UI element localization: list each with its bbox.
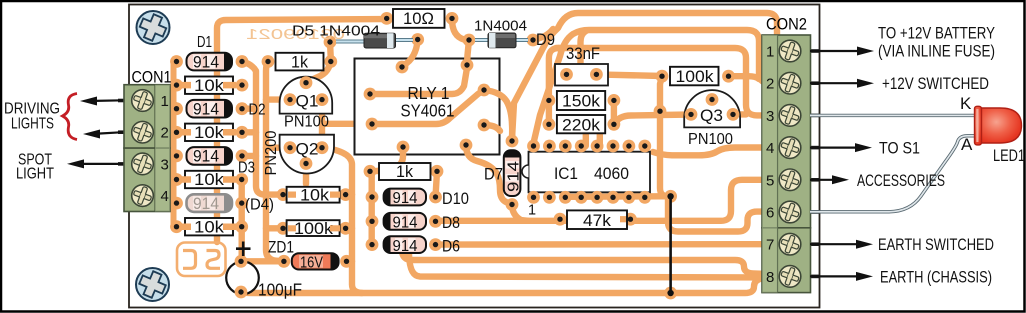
wire: relay internal horizontal to top right pad <box>370 68 467 94</box>
diode D4 optional <box>187 194 275 214</box>
svg-text:ACCESSORIES: ACCESSORIES <box>857 171 945 190</box>
node: 100k R1 pads <box>656 70 669 83</box>
brace <box>63 94 78 140</box>
arrow to CON1 terminal 2 <box>98 132 123 133</box>
mounting screw top left <box>137 11 170 44</box>
node: 220k pads <box>543 118 556 131</box>
node: 150k pads <box>543 94 556 107</box>
node: D10 pads <box>366 191 379 204</box>
transistor Q2 body <box>280 135 334 174</box>
wire: trace to CON2 terminal 3 <box>556 48 769 115</box>
svg-text:PN100: PN100 <box>284 114 329 131</box>
CON2 terminal numbers <box>766 44 774 286</box>
svg-text:8: 8 <box>766 269 774 286</box>
resistor 100k 1 <box>670 67 719 86</box>
arrow from CON2 terminal 1 <box>810 50 862 52</box>
CON2 screw 4 <box>779 136 802 159</box>
svg-text:7: 7 <box>766 237 774 254</box>
CON1 screw 2 <box>131 121 154 144</box>
resistor 1k top <box>276 52 324 71</box>
svg-text:D8: D8 <box>442 214 460 232</box>
wire: Q1 right pad down to Q2 right pad <box>319 100 325 148</box>
svg-text:D5 1N4004: D5 1N4004 <box>292 23 380 40</box>
node: D9 pads <box>463 34 476 47</box>
wire: relay internal lower horizontal diagonal <box>372 90 484 124</box>
CON2 screw 6 <box>779 201 802 224</box>
node: D7 pads <box>506 135 519 148</box>
wire: IC bottom rail to jumper top and S-curve into CON2 terminal 6 <box>566 196 769 231</box>
wire: Q2 left pad stub <box>266 144 290 150</box>
wire: 10-ohm right pad down to D9 left pad <box>452 19 469 40</box>
svg-text:914: 914 <box>193 147 219 166</box>
wire: trace to CON2 terminal 1 <box>512 13 777 139</box>
diode D2 <box>187 100 266 119</box>
wire: capacitor minus pad into bottom rail <box>241 279 762 294</box>
wire: Q3 right pad stub <box>733 111 746 117</box>
node: Q3 pads <box>685 108 698 121</box>
node: left pad column (CON1 rail pads) <box>170 55 183 233</box>
resistor 10k 1 <box>185 76 233 95</box>
svg-text:1: 1 <box>161 93 169 110</box>
LED A lead wire <box>810 136 976 212</box>
wire: CON1 terminal 2 stub <box>166 129 177 136</box>
svg-text:D1: D1 <box>197 34 212 51</box>
svg-text:150k: 150k <box>562 93 601 111</box>
wire: stubs into other resistor boxes <box>288 195 626 229</box>
svg-text:100k: 100k <box>294 220 334 238</box>
diode D5 1N4004 <box>292 23 413 49</box>
diode D7 vertical <box>484 150 522 196</box>
node: 1k R2 pads <box>364 165 377 178</box>
wire: right pad column vertical down to capacitor plus pad <box>238 180 244 262</box>
wire: D3 right pad stub <box>242 153 256 159</box>
svg-text:914: 914 <box>393 238 418 255</box>
svg-text:3: 3 <box>766 108 774 125</box>
zener ZD1 16V <box>268 239 339 272</box>
wire: 100k2 right pad stub <box>346 225 352 231</box>
node: Q2 pads <box>284 141 297 154</box>
diode D9 1N4004 <box>474 18 555 50</box>
svg-text:PN200: PN200 <box>263 130 280 175</box>
svg-text:33nF: 33nF <box>566 45 600 63</box>
wire: D9 right pad link to top bundle <box>533 29 553 40</box>
CON2 screw 2 <box>779 72 802 95</box>
CON2 screw 3 <box>779 104 802 127</box>
CON2 screw 7 <box>779 233 802 256</box>
wire: 33nF right pad to 100k left pad <box>596 74 662 76</box>
resistor ladder stubs over boxes <box>181 85 236 227</box>
svg-text:2: 2 <box>766 76 774 93</box>
relay RLY1 body <box>355 59 500 155</box>
wire: 10k2 right pad stub <box>242 129 256 135</box>
svg-text:A: A <box>961 135 973 154</box>
svg-text:Q3: Q3 <box>700 107 723 125</box>
board outline <box>129 5 820 308</box>
wire: D7 bottom pad drop to ground line <box>512 205 528 221</box>
node: D8 pads <box>366 215 379 228</box>
svg-text:914: 914 <box>193 100 219 119</box>
CON2 screw 8 <box>779 265 802 288</box>
CON1 wire stub 2 <box>118 130 127 134</box>
node: D6 pads <box>366 238 379 251</box>
wire: trace to CON2 terminal 4 <box>653 148 769 156</box>
svg-text:4060: 4060 <box>594 164 629 183</box>
wire: 47k D8 line rising to CON2 terminal 5 <box>436 180 770 221</box>
CON1 wire stub 1 <box>118 99 127 103</box>
resistor 100k 2 <box>287 220 340 238</box>
wire: 1k left pad down vertical x266 to ZD1 left pad <box>266 62 284 262</box>
CON1 terminal numbers <box>161 93 169 205</box>
wire: 1k2 right pad down to D10 right pad <box>436 171 438 197</box>
wire: relay bottom left pad down to 1k2 left pad <box>372 147 403 171</box>
resistor 10k 2 <box>185 123 233 142</box>
wire: IC pin stub up left <box>583 135 589 146</box>
wire: right vertical rail x352 down into bottom rail <box>322 148 362 293</box>
wire: relay right pad to D7 top pad <box>484 90 512 137</box>
LED LED1 <box>975 106 1022 145</box>
LED K lead wire <box>810 114 975 117</box>
svg-text:4: 4 <box>766 140 774 157</box>
arrow from CON2 terminal 7 <box>810 243 861 245</box>
svg-text:CON2: CON2 <box>766 15 807 34</box>
svg-text:EARTH SWITCHED: EARTH SWITCHED <box>878 235 994 254</box>
svg-text:(D4): (D4) <box>245 197 274 214</box>
arrow from CON2 terminal 5 <box>810 179 837 181</box>
node: capacitor pads <box>235 255 248 268</box>
node: jumper link pads <box>664 190 677 203</box>
svg-text:10k: 10k <box>194 123 225 142</box>
node: 1k R1 pads <box>262 55 275 68</box>
CON2 screw 1 <box>779 40 802 63</box>
svg-text:D6: D6 <box>442 237 460 255</box>
wire: D6 line to CON2 terminal 7 <box>436 241 770 248</box>
wire: IC pin stub up right <box>597 135 603 146</box>
svg-text:Q2: Q2 <box>296 140 319 158</box>
jumper wire link <box>669 196 672 293</box>
svg-text:1k: 1k <box>291 52 308 71</box>
wire: 100k left pad drop to IC ground line <box>660 76 668 196</box>
wire: ZD1 right pad stub <box>347 258 353 264</box>
svg-text:10Ω: 10Ω <box>403 9 434 28</box>
svg-text:CON1: CON1 <box>132 68 172 87</box>
resistor 10k 4 <box>185 217 233 236</box>
wire: left diode column vertical <box>369 171 375 244</box>
CON1 screw 1 <box>131 89 154 112</box>
svg-text:16V: 16V <box>300 255 324 272</box>
svg-text:LED1: LED1 <box>993 146 1025 165</box>
svg-text:100μF: 100μF <box>258 280 302 300</box>
wire: lower ground line A to terminal 8 upper <box>402 250 766 274</box>
svg-text:914: 914 <box>193 52 219 71</box>
IC1 notch <box>522 165 529 178</box>
svg-text:SY4061: SY4061 <box>401 101 455 121</box>
svg-text:100k: 100k <box>676 68 715 86</box>
svg-text:914: 914 <box>193 194 219 213</box>
CON1 screw 4 <box>131 184 154 207</box>
arrow from CON2 terminal 8 <box>810 275 861 277</box>
silkscreen SC logo <box>177 243 226 277</box>
wire: D2 right pad stub <box>242 105 256 111</box>
diode D6 <box>384 236 460 255</box>
mounting screw bottom left <box>136 268 169 301</box>
wire: relay bottom right pad down to D7 bottom pad <box>466 145 512 205</box>
diode D10 <box>384 189 469 208</box>
arrow from CON2 terminal 4 <box>810 147 860 149</box>
svg-text:IC1: IC1 <box>554 164 578 183</box>
wire: Q1 left pad stub <box>266 96 290 102</box>
resistor 47k <box>567 210 627 229</box>
svg-text:1k: 1k <box>396 163 414 181</box>
wire: 33nF centre vertical stub <box>581 31 587 64</box>
node: 10k R5 pads <box>277 188 290 201</box>
node: IC1 bottom pin pads <box>527 191 651 204</box>
transistor Q1 body <box>280 77 333 114</box>
wire: trace to CON2 terminal 2 from IC pin <box>534 30 770 143</box>
svg-text:+12V SWITCHED: +12V SWITCHED <box>882 74 989 93</box>
node: right pad column <box>235 55 248 233</box>
connector CON1 block <box>124 85 170 212</box>
arrow to CON1 terminal 3 <box>82 163 123 165</box>
wire: CON1 left rail <box>171 62 177 227</box>
CON2 screw 5 <box>779 168 802 191</box>
wire: CON1 terminal 4 stub <box>166 196 177 204</box>
svg-text:LIGHTS: LIGHTS <box>11 116 54 133</box>
resistor 10k 5 <box>287 187 340 205</box>
svg-text:6: 6 <box>766 205 774 222</box>
svg-text:10k: 10k <box>194 76 225 95</box>
node: IC1 top pin pads <box>527 140 651 153</box>
svg-text:LIGHT: LIGHT <box>16 166 54 183</box>
wire: Q-column to relay left mid pad <box>322 121 372 127</box>
svg-text:D2: D2 <box>249 102 266 119</box>
svg-text:1: 1 <box>766 44 774 61</box>
svg-text:10k: 10k <box>194 217 225 236</box>
svg-text:220k: 220k <box>562 116 601 134</box>
CON1 screw 3 <box>131 152 154 175</box>
svg-text:TO S1: TO S1 <box>879 139 920 158</box>
svg-text:ZD1: ZD1 <box>268 239 294 257</box>
wire: CON1 terminal 3 stub <box>166 164 177 178</box>
node: 100k R2 pads <box>277 222 290 235</box>
connector CON2 block <box>762 35 811 293</box>
diode D3 <box>187 147 256 177</box>
resistor 1k 2 <box>379 163 431 181</box>
capacitor 33nF body <box>555 64 608 86</box>
resistor 220k <box>557 115 605 134</box>
wire: top rail from left vertical to 10-ohm left pad <box>217 19 387 242</box>
svg-text:914: 914 <box>505 161 522 192</box>
node: Q1 pads <box>284 93 297 106</box>
resistor 10k 3 <box>185 170 233 189</box>
svg-text:Q1: Q1 <box>296 92 319 110</box>
wire: lower ground line B to terminal 8 <box>409 252 769 278</box>
svg-text:TO +12V BATTERY: TO +12V BATTERY <box>878 24 995 43</box>
arrow from CON2 terminal 2 <box>810 82 862 84</box>
capacitor 100uF labels <box>236 242 251 257</box>
svg-text:914: 914 <box>393 190 418 207</box>
CON1 wire stub 3 <box>118 162 127 166</box>
node: 47k pads <box>554 213 567 226</box>
svg-text:1N4004: 1N4004 <box>474 18 527 35</box>
svg-text:47k: 47k <box>583 212 612 230</box>
CON2 wire stubs <box>805 49 819 278</box>
wire: 100k2 left pad stub <box>266 225 283 231</box>
diode D8 <box>384 213 460 232</box>
svg-text:EARTH (CHASSIS): EARTH (CHASSIS) <box>880 267 992 286</box>
wire: D5 left pad down to 1k right pad then to Q1 top pad <box>306 42 331 86</box>
wire: D5 right lead pad down to relay top pad <box>402 40 418 67</box>
wire: relay right lower pad stub <box>484 125 500 131</box>
svg-text:2: 2 <box>161 125 169 142</box>
svg-text:4: 4 <box>161 188 169 205</box>
node: 33nF pads <box>560 68 573 81</box>
wire: 220k right pad to Q3 left pad <box>614 115 691 125</box>
wire: 150k 220k left rail up into terminal 3 line <box>549 48 559 124</box>
wire: capacitor plus pad to ZD1 left pad <box>241 258 284 264</box>
node: relay RLY1 pads <box>364 59 491 154</box>
svg-text:5: 5 <box>766 172 774 189</box>
wire: left pad column connector stubs <box>174 62 177 227</box>
wire: D9 left pad down to relay top pad <box>467 40 469 65</box>
wire: D1 right pad Y-junction down vertical x256 to 10k5 left pad <box>242 62 283 195</box>
node: 10 ohm pads <box>380 12 393 25</box>
svg-text:D9: D9 <box>536 31 555 49</box>
svg-text:K: K <box>960 94 972 113</box>
svg-text:PN100: PN100 <box>688 131 733 148</box>
wire: 100k right pad join terminal 2 drop <box>729 76 760 79</box>
diode D1 <box>187 34 233 71</box>
resistor 150k <box>557 91 605 111</box>
svg-text:3: 3 <box>161 156 169 173</box>
wire: CON1 terminal 1 stub <box>166 101 177 107</box>
wire: 10k5 right pad stub <box>346 191 352 197</box>
node: ZD1 pads <box>278 255 291 268</box>
svg-text:10k: 10k <box>300 187 330 205</box>
svg-text:914: 914 <box>393 215 418 232</box>
node: D5 pads <box>324 36 337 49</box>
svg-text:1: 1 <box>528 203 536 219</box>
node: via pad <box>654 105 667 118</box>
svg-text:10k: 10k <box>194 170 225 189</box>
svg-text:D7: D7 <box>484 166 503 184</box>
transistor Q3 body <box>684 90 740 127</box>
IC1 body <box>529 152 651 193</box>
svg-text:(VIA INLINE FUSE): (VIA INLINE FUSE) <box>878 42 995 61</box>
arrow to CON1 terminal 1 <box>95 99 123 102</box>
capacitor 100uF body <box>226 262 259 295</box>
wire: 150k right to 220k right vertical <box>611 100 617 124</box>
svg-text:D10: D10 <box>442 190 469 208</box>
resistor 10 ohm <box>393 9 445 28</box>
svg-text:D3: D3 <box>238 160 255 177</box>
wire: Q2 bottom pad stub down <box>303 164 309 185</box>
